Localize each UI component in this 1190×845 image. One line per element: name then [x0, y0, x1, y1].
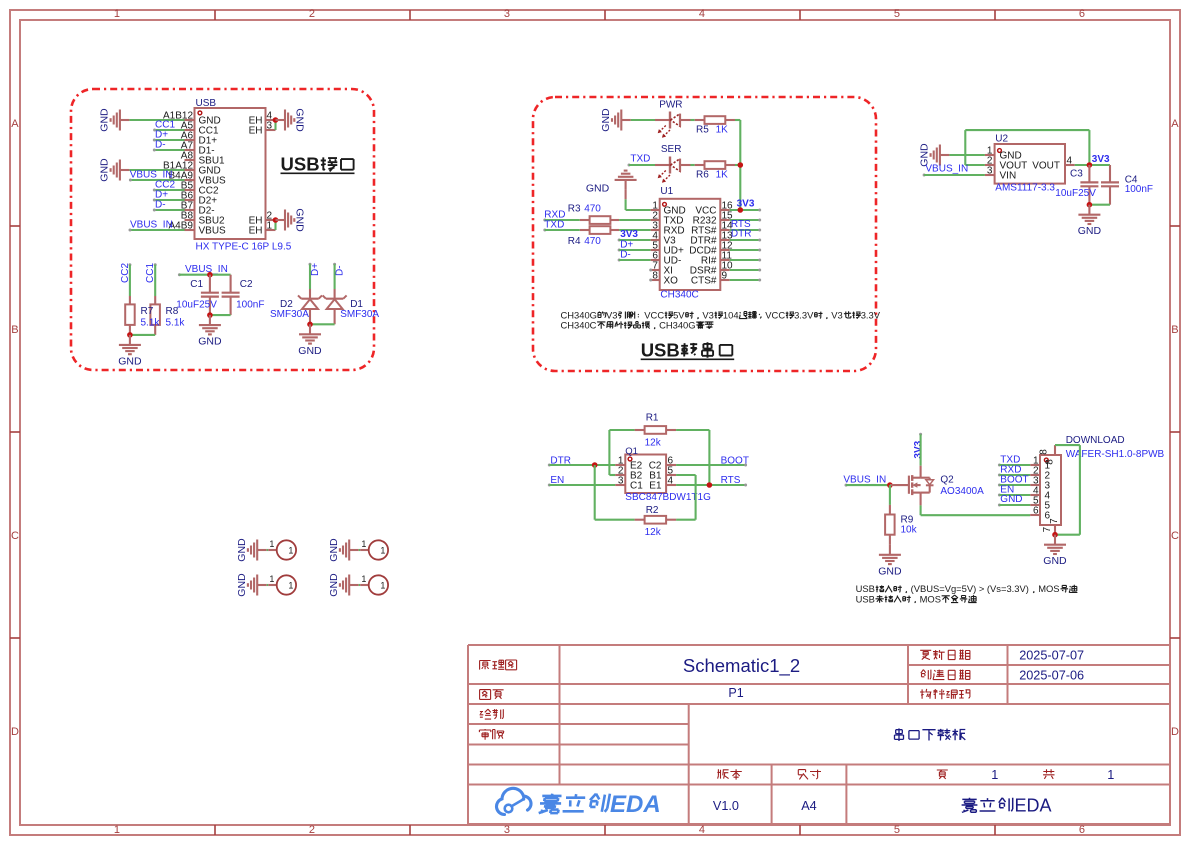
svg-text:CTS#: CTS# — [691, 276, 717, 287]
svg-text:C2: C2 — [240, 279, 253, 290]
connector USB (HX TYPE-C 16P L9.5) — [163, 98, 292, 252]
wire U1 CTS# pin9 — [730, 279, 762, 282]
svg-text:10k: 10k — [901, 525, 918, 536]
svg-text:V3: V3 — [702, 309, 713, 320]
capacitor C1 10uF25V — [176, 275, 219, 315]
net label D- at U1 pin 6 — [618, 249, 631, 261]
title block grid — [468, 645, 1170, 824]
net label RTS with wire from Q1 pin 4 — [676, 475, 747, 486]
wire R1 left to Q1 pin 2 — [609, 430, 634, 475]
net label VBUS_IN with wire to Q2 gate — [843, 474, 890, 486]
resistor R4 470 — [568, 226, 619, 247]
svg-text:3V3: 3V3 — [737, 198, 755, 209]
wire U1 R232 pin15 — [730, 219, 762, 222]
logo JLCEDA text — [539, 791, 661, 818]
svg-text:470: 470 — [584, 204, 601, 215]
svg-text:EDA: EDA — [1015, 796, 1052, 816]
svg-text:6: 6 — [1079, 8, 1085, 20]
wire U2 VOUT pin2 loop to 3V3 — [965, 130, 1089, 165]
svg-text:A: A — [1171, 118, 1179, 130]
svg-text:1K: 1K — [716, 125, 729, 136]
svg-text:CH340C: CH340C — [561, 319, 597, 330]
junction VBUS_IN at C1 — [207, 272, 213, 278]
svg-text:SMF30A: SMF30A — [270, 309, 309, 320]
svg-text:VCC: VCC — [765, 309, 785, 320]
svg-text:3: 3 — [267, 121, 273, 132]
svg-text:C1: C1 — [630, 481, 643, 492]
ground GND (USB pin A1B12) — [99, 108, 130, 132]
junction C3/C4 ground node — [1087, 202, 1093, 208]
svg-text:R2: R2 — [646, 505, 659, 516]
wire GND to mounting hole 3 — [267, 584, 269, 586]
svg-text:2: 2 — [309, 8, 315, 20]
wire D- to diode D1 — [334, 264, 336, 289]
svg-text:VBUS: VBUS — [199, 226, 227, 237]
wire U1 VCC pin16 to 3V3 — [730, 209, 762, 212]
wire R1 right down to RTS node — [676, 430, 709, 485]
annotation CH340 note line 1 — [561, 309, 881, 320]
junction 3V3 at C3 — [1087, 162, 1093, 168]
wire U2 pin4 to 3V3 node — [1075, 164, 1110, 166]
net label CC2 with wire to pin B5 — [153, 179, 185, 191]
svg-text:100nF: 100nF — [1125, 184, 1153, 195]
label R7 5.1k — [141, 306, 161, 329]
svg-text:D+: D+ — [310, 263, 321, 276]
svg-text:1: 1 — [361, 539, 366, 549]
wire Q2 source to DOWNLOAD pin 6 — [921, 505, 1031, 515]
svg-text:BOOT: BOOT — [721, 456, 749, 467]
svg-text:V3: V3 — [606, 309, 617, 320]
ground GND (U1 pin 1, inverted) — [586, 171, 637, 195]
svg-text:5.1k: 5.1k — [166, 317, 186, 328]
ground GND (mounting hole 1) — [236, 538, 267, 562]
wire EH pin 3 up to EH pin 4 — [274, 120, 276, 130]
svg-text:AO3400A: AO3400A — [940, 486, 984, 497]
svg-text:1K: 1K — [716, 170, 729, 181]
wire D- to U1 pin 6 — [619, 259, 651, 261]
wire R5 to 3V3 rail — [735, 120, 740, 165]
svg-text:12k: 12k — [645, 527, 662, 538]
junction D1/D2 ground node — [307, 322, 313, 328]
svg-text:GND: GND — [118, 355, 142, 367]
svg-text:RTS: RTS — [721, 475, 741, 486]
net label D- with wire to pin A7 — [153, 139, 185, 151]
svg-text:3.3V: 3.3V — [861, 309, 881, 320]
svg-text:10uF25V: 10uF25V — [1055, 188, 1096, 199]
svg-text:TXD: TXD — [630, 154, 650, 165]
section title USB接口 — [281, 154, 355, 175]
junction R6/LED rail — [738, 162, 744, 168]
svg-text:5: 5 — [894, 8, 900, 20]
junction RTS node — [707, 482, 713, 488]
svg-text:USB: USB — [641, 339, 680, 360]
ground GND (USB pin B1A12) — [99, 158, 130, 182]
title block values — [683, 649, 1114, 816]
net label VBUS_IN at U2 pin 3 — [923, 164, 969, 177]
IC U1 CH340C — [651, 186, 733, 300]
ground GND (C1/C2) — [198, 315, 222, 348]
svg-text:CH340G: CH340G — [659, 319, 695, 330]
wire GND to mounting hole 2 — [359, 549, 361, 551]
svg-text:5: 5 — [894, 824, 900, 836]
net label D- (rotated) at D1 — [333, 263, 345, 276]
ground GND (PWR LED) — [600, 108, 631, 132]
svg-text:MOS: MOS — [920, 593, 941, 604]
wire Q1 pin 5 to R2 right — [676, 475, 696, 520]
svg-text:R7: R7 — [141, 306, 154, 317]
wire GND to LED PWR — [631, 119, 655, 121]
svg-text:B: B — [11, 324, 18, 336]
mounting hole H3 — [268, 574, 296, 595]
svg-text:GND: GND — [1000, 494, 1022, 505]
svg-text:1: 1 — [991, 768, 998, 782]
svg-text:7: 7 — [1049, 518, 1060, 524]
svg-text:1: 1 — [361, 574, 366, 584]
svg-text:C: C — [1171, 530, 1179, 542]
ground GND (EH top) — [276, 108, 306, 132]
ground GND (R9) — [878, 545, 902, 578]
net label RXD with wire to DOWNLOAD pin 2 — [998, 465, 1030, 477]
connector DOWNLOAD WAFER-SH1.0-8PWB — [1030, 435, 1164, 535]
resistor R8 5.1k — [150, 296, 160, 335]
svg-text:R5: R5 — [696, 125, 709, 136]
resistor R9 10k — [885, 505, 918, 545]
annotation CH340 note line 2 — [561, 319, 714, 330]
svg-text:VBUS_IN: VBUS_IN — [843, 474, 886, 485]
svg-text:GND: GND — [600, 108, 612, 132]
svg-text:Q2: Q2 — [940, 474, 954, 485]
svg-text:GND: GND — [294, 108, 306, 132]
svg-text:6: 6 — [1079, 824, 1085, 836]
transistor Q1 SBC847BDW1T1G — [615, 446, 711, 503]
svg-text:R1: R1 — [646, 413, 659, 424]
svg-text:GND: GND — [1078, 225, 1102, 237]
net label EN with wire to DOWNLOAD pin 4 — [998, 484, 1030, 496]
resistor R1 12k — [635, 413, 677, 449]
diode D2 SMF30A — [270, 289, 322, 324]
svg-text:1: 1 — [380, 546, 385, 556]
svg-text:D-: D- — [155, 199, 166, 210]
svg-text:GND: GND — [298, 345, 322, 357]
net label BOOT with wire to DOWNLOAD pin 3 — [998, 475, 1030, 487]
svg-text:3: 3 — [618, 476, 624, 487]
svg-text:3: 3 — [504, 824, 510, 836]
wire U1 RI# pin11 — [730, 259, 762, 262]
net label 3V3 at U1 pin 4 — [618, 229, 639, 241]
svg-text:C: C — [11, 530, 19, 542]
net label DTR with wire U1 pin13 — [730, 228, 762, 241]
capacitor C2 100nF — [222, 275, 265, 315]
wire GND to USB pin A1B12 — [129, 119, 184, 121]
svg-text:SMF30A: SMF30A — [340, 309, 379, 320]
svg-text:2025-07-07: 2025-07-07 — [1019, 649, 1084, 663]
junction VBUS_IN at Q2/R9 — [887, 482, 893, 488]
svg-text:6: 6 — [1033, 506, 1039, 517]
ground GND (mounting hole 4) — [328, 573, 359, 597]
wire C4 bottom to C3 bottom — [1089, 204, 1110, 206]
wire CC2 to R7 — [129, 265, 131, 296]
wire GND to mounting hole 4 — [359, 584, 361, 586]
svg-text:USB: USB — [281, 154, 320, 175]
ground GND (R7/R8) — [118, 335, 142, 368]
wire CC1 to R8 — [154, 265, 156, 296]
power label 3V3 at U1 pin16 — [737, 198, 755, 209]
ground GND (mounting hole 3) — [236, 573, 267, 597]
wire VBUS_IN to C1/C2 — [179, 274, 230, 276]
net label D+ with wire to pin B6 — [153, 189, 185, 201]
svg-text:GND: GND — [198, 336, 222, 348]
ground GND (C3/C4) — [1078, 205, 1102, 238]
svg-text:D-: D- — [620, 249, 631, 260]
svg-text:104: 104 — [723, 309, 739, 320]
net label CC1 (rotated) at R8 top — [145, 263, 157, 283]
svg-text:V1.0: V1.0 — [713, 799, 739, 813]
net label BOOT with wire from Q1 pin 6 — [676, 456, 749, 467]
svg-text:PWR: PWR — [659, 100, 682, 111]
junction DTR node — [592, 462, 598, 468]
stub ends U1 XI XO — [649, 269, 652, 282]
net label D- with wire to pin B7 — [153, 199, 185, 211]
wire GND to USB pin B1A12 — [129, 169, 184, 171]
mounting hole H2 — [360, 539, 388, 560]
wire R8 bottom to R7 bottom — [130, 334, 155, 336]
svg-text:GND: GND — [586, 183, 610, 195]
net label RXD at R3 — [543, 210, 565, 222]
svg-text:USB: USB — [196, 98, 217, 109]
wire 3V3 to U1 pin 4 — [619, 239, 651, 241]
wire VBUS_IN to U2 pin 3 — [924, 174, 985, 176]
wire VBUS_IN down to R9 — [889, 485, 891, 505]
svg-text:VBUS_IN: VBUS_IN — [925, 164, 968, 175]
svg-text:SER: SER — [661, 144, 682, 155]
junction DOWNLOAD pin 7 ground node — [1052, 532, 1058, 538]
mounting hole H1 — [268, 539, 296, 560]
svg-text:1: 1 — [1107, 768, 1114, 782]
net label 3V3 (rotated) at Q2 drain — [913, 433, 924, 459]
resistor R7 5.1k — [125, 296, 135, 335]
svg-text:VOUT: VOUT — [1032, 161, 1060, 172]
svg-text:470: 470 — [584, 236, 601, 247]
svg-text:B: B — [1171, 324, 1178, 336]
net label TXD at R4 — [543, 220, 564, 232]
net label VBUS_IN with wire to pin B4A9 — [129, 170, 185, 182]
svg-text:EH: EH — [249, 126, 263, 137]
net label D+ with wire to pin A6 — [153, 129, 185, 141]
svg-text:D: D — [11, 726, 19, 738]
wire D+ to U1 pin 5 — [619, 249, 651, 251]
wire LED PWR to R5 — [680, 119, 695, 121]
svg-text:2025-07-06: 2025-07-06 — [1019, 669, 1084, 683]
resistor R6 1K — [695, 161, 735, 180]
resistor R3 470 — [568, 204, 619, 224]
svg-text:1: 1 — [288, 581, 293, 591]
svg-text:USB: USB — [856, 593, 875, 604]
resistor R5 1K — [695, 116, 735, 135]
svg-text:8: 8 — [652, 271, 658, 282]
svg-text:4: 4 — [668, 476, 674, 487]
USB-to-serial section dashed border — [533, 97, 876, 371]
regulator U2 AMS1117-3.3 — [985, 134, 1075, 194]
svg-text:CH340C: CH340C — [660, 290, 698, 301]
wire GND to U2 pin 1 — [949, 154, 985, 156]
svg-text:XO: XO — [664, 276, 679, 287]
svg-text:D-: D- — [155, 139, 166, 150]
svg-text:U1: U1 — [660, 186, 673, 197]
net label CC2 (rotated) at R7 top — [120, 263, 132, 283]
net label DTR with wire to Q1 — [548, 456, 616, 467]
svg-text:C1: C1 — [190, 279, 203, 290]
net label VBUS_IN with wire to pin A4B9 — [129, 220, 185, 232]
svg-text:GND: GND — [99, 158, 111, 182]
svg-text:4: 4 — [699, 824, 705, 836]
svg-text:A: A — [11, 118, 19, 130]
junction 3V3 at U1 pin16 — [738, 207, 744, 213]
net label TXD at LED SER — [628, 154, 651, 167]
ground GND (U2 pin 1) — [919, 143, 950, 167]
svg-text:R6: R6 — [696, 170, 709, 181]
svg-text:HX TYPE-C 16P L9.5: HX TYPE-C 16P L9.5 — [196, 242, 292, 253]
wire R4 to U1 pin 3 — [619, 229, 651, 231]
svg-text:1: 1 — [269, 574, 274, 584]
wire DOWNLOAD pin 8 to pin 7 ground loop — [1055, 445, 1080, 535]
svg-text:4: 4 — [699, 8, 705, 20]
svg-text:DTR: DTR — [731, 228, 752, 239]
svg-text:D-: D- — [335, 265, 346, 276]
svg-text:2: 2 — [309, 824, 315, 836]
svg-text:GND: GND — [878, 565, 902, 577]
wire 3V3 down to Q2 drain — [920, 434, 922, 465]
wire R3 to U1 pin 2 — [619, 219, 651, 221]
svg-text:U2: U2 — [995, 134, 1008, 145]
svg-text:7: 7 — [1042, 526, 1053, 532]
wire U1 DSR# pin10 — [730, 269, 762, 272]
junction C1/C2 ground node — [207, 312, 213, 318]
svg-text:VBUS_IN: VBUS_IN — [185, 264, 228, 275]
LED PWR — [655, 100, 683, 138]
net label TXD with wire to DOWNLOAD pin 1 — [998, 455, 1030, 467]
svg-text:GND: GND — [99, 108, 111, 132]
svg-text:1: 1 — [269, 539, 274, 549]
junction EH2 node — [273, 217, 279, 223]
net label VBUS_IN at C1/C2 — [178, 264, 228, 276]
ground GND (D1/D2) — [298, 324, 322, 357]
svg-text:Q1: Q1 — [625, 446, 638, 457]
label R8 5.1k — [166, 306, 186, 329]
svg-text:GND: GND — [294, 208, 306, 232]
svg-text:EDA: EDA — [610, 791, 661, 818]
svg-text:Schematic1_2: Schematic1_2 — [683, 655, 800, 677]
svg-text:C3: C3 — [1070, 169, 1083, 180]
wire EH pin 1 up to EH pin 2 — [274, 220, 276, 230]
section title USB转串口 — [641, 339, 735, 360]
svg-text:1: 1 — [380, 581, 385, 591]
svg-text:3.3V: 3.3V — [794, 309, 814, 320]
svg-text:GND: GND — [1043, 555, 1067, 567]
svg-text:1: 1 — [288, 546, 293, 556]
svg-text:3V3: 3V3 — [913, 440, 924, 458]
capacitor C4 100nF — [1101, 165, 1153, 205]
LED SER — [655, 144, 681, 183]
svg-text:GND: GND — [236, 538, 248, 562]
svg-text:10uF25V: 10uF25V — [176, 299, 217, 310]
svg-text:4: 4 — [1067, 156, 1073, 167]
power label 3V3 at U2 output — [1092, 154, 1110, 165]
svg-text:12k: 12k — [645, 438, 662, 449]
wire GND down to U1 pin 1 — [626, 190, 651, 210]
mounting hole H4 — [360, 574, 388, 595]
wire D+ to diode D2 — [309, 264, 311, 289]
wire DTR down to R2 — [595, 465, 635, 520]
ground GND (mounting hole 2) — [328, 538, 359, 562]
USB section dashed border — [71, 89, 374, 370]
svg-text:R3: R3 — [568, 204, 581, 215]
junction R7/R8 ground node — [127, 332, 133, 338]
svg-text:3V3: 3V3 — [1092, 154, 1110, 165]
svg-text:1: 1 — [267, 221, 273, 232]
svg-text:1: 1 — [114, 824, 120, 836]
net label D+ at U1 pin 5 — [618, 239, 634, 251]
wire C2 bottom to C1 bottom — [210, 314, 231, 316]
net label EN with wire to Q1 pin 3 — [548, 475, 616, 486]
logo JLCEDA cloud icon — [496, 788, 531, 814]
junction EH4 node — [273, 117, 279, 123]
net label D+ (rotated) at D2 — [309, 263, 322, 276]
net label RTS with wire U1 pin14 — [730, 219, 762, 232]
wire R6 to 3V3 rail junction — [735, 165, 740, 210]
wire TXD to LED SER — [629, 164, 655, 166]
svg-text:3: 3 — [504, 8, 510, 20]
svg-text:R4: R4 — [568, 236, 581, 247]
svg-text:5.1k: 5.1k — [141, 317, 161, 328]
ground GND (DOWNLOAD) — [1043, 535, 1067, 568]
title block labels — [479, 650, 1054, 780]
net label CC1 with wire to pin A5 — [153, 119, 184, 131]
svg-text:AMS1117-3.3: AMS1117-3.3 — [995, 183, 1055, 194]
svg-text:P1: P1 — [728, 686, 743, 700]
wire TXD to R4 — [545, 229, 580, 231]
svg-text:GND: GND — [328, 538, 340, 562]
transistor Q2 AO3400A — [890, 466, 984, 506]
svg-text:8: 8 — [1038, 449, 1049, 455]
svg-text:VBUS_IN: VBUS_IN — [130, 220, 173, 231]
annotation MOSFET note line 1 — [856, 583, 1078, 594]
svg-text:MOS: MOS — [1038, 583, 1059, 594]
svg-text:GND: GND — [328, 573, 340, 597]
svg-text:SBC847BDW1T1G: SBC847BDW1T1G — [625, 492, 711, 503]
svg-text:100nF: 100nF — [236, 299, 264, 310]
wire D1 anode to D2 anode — [310, 323, 335, 325]
svg-text:GND: GND — [236, 573, 248, 597]
svg-text:D: D — [1171, 726, 1179, 738]
svg-text:3: 3 — [987, 166, 993, 177]
svg-text:VIN: VIN — [1000, 171, 1017, 182]
wire GND to mounting hole 1 — [267, 549, 269, 551]
svg-text:A4: A4 — [801, 799, 817, 813]
svg-text:8: 8 — [1045, 459, 1056, 465]
net label GND with wire to DOWNLOAD pin 5 — [998, 494, 1030, 506]
wire RXD to R3 — [545, 219, 580, 221]
resistor R2 12k — [635, 505, 677, 538]
svg-text:E1: E1 — [649, 481, 662, 492]
svg-text:V3: V3 — [831, 309, 842, 320]
annotation MOSFET note line 2 — [856, 593, 977, 604]
ground GND (EH bottom) — [276, 208, 306, 232]
wire U1 DCD# pin12 — [730, 249, 762, 252]
svg-text:EH: EH — [249, 226, 263, 237]
capacitor C3 10uF25V — [1055, 165, 1098, 205]
svg-text:9: 9 — [722, 271, 728, 282]
svg-text:1: 1 — [114, 8, 120, 20]
